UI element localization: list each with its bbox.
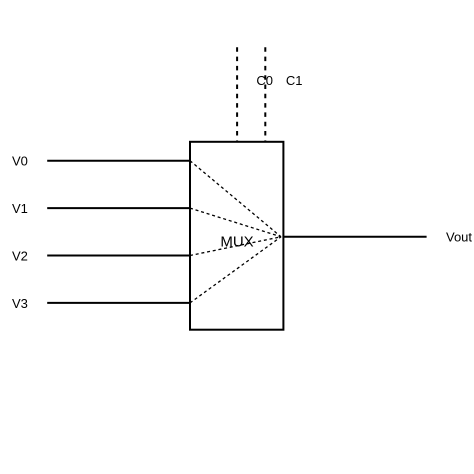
svg-text:V0: V0: [12, 154, 28, 169]
svg-text:C1: C1: [286, 73, 303, 88]
selection path from V0 (dashed): [190, 161, 281, 237]
wire input V3: [47, 302, 190, 304]
wire output Vout: [283, 236, 426, 238]
svg-text:C0: C0: [256, 73, 273, 88]
svg-text:Vout: Vout: [446, 230, 472, 245]
svg-text:V3: V3: [12, 296, 28, 311]
control line C1 (dashed vertical): [264, 47, 266, 141]
wire input V2: [47, 255, 190, 257]
selection path from V2 (dashed): [190, 237, 281, 256]
wire input V1: [47, 207, 190, 209]
selection path from V3 (dashed): [190, 237, 281, 303]
wire input V0: [47, 160, 190, 162]
svg-text:V1: V1: [12, 201, 28, 216]
mux box: [190, 142, 283, 330]
svg-text:V2: V2: [12, 249, 28, 264]
selection path from V1 (dashed): [190, 208, 281, 237]
control line C0 (dashed vertical): [236, 47, 238, 141]
